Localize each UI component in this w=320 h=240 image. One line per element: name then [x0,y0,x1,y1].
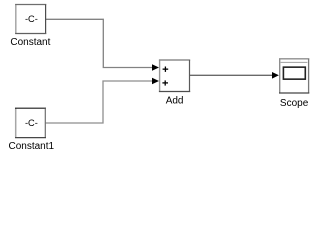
arrowhead at Add input 1 [152,64,159,71]
arrowhead at Scope input [272,72,279,79]
wire Constant1 to Add input 2 [45,81,153,123]
constant block Constant1 [15,108,46,137]
scope screen [283,67,305,79]
arrowhead at Add input 2 [152,78,159,85]
svg-text:Constant: Constant [10,37,50,48]
constant block Constant [15,5,46,34]
scope block Scope [279,59,309,93]
wire Constant to Add input 1 [46,19,154,67]
sum block Add [159,60,190,92]
plus sign for input 1 [163,67,169,72]
svg-text:-C-: -C- [25,14,38,24]
svg-text:Add: Add [166,96,184,107]
wire Add to Scope [190,74,273,76]
plus sign for input 2 [162,80,168,85]
svg-text:Scope: Scope [280,98,309,109]
svg-text:Constant1: Constant1 [9,141,55,152]
svg-text:-C-: -C- [25,118,38,128]
scope bezel top line [281,61,308,63]
